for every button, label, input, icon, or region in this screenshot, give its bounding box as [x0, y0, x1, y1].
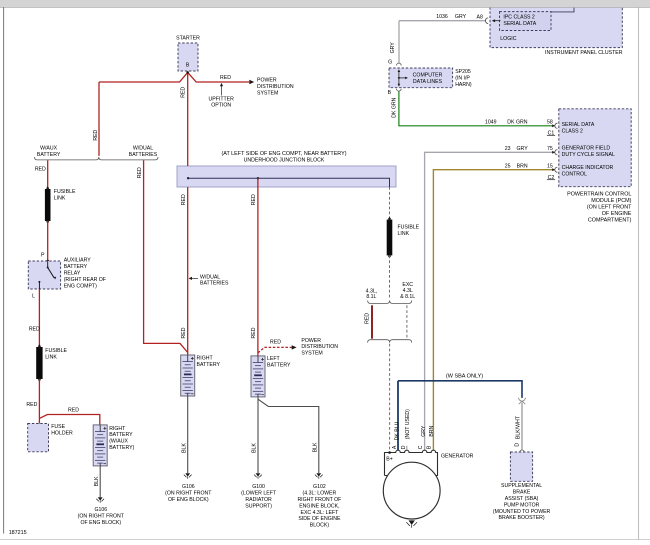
svg-text:RIGHT FRONT OF: RIGHT FRONT OF — [297, 497, 341, 503]
svg-text:BLK/WHT: BLK/WHT — [516, 415, 522, 439]
svg-text:BRAKE: BRAKE — [513, 490, 531, 496]
svg-text:OF ENG BLOCK): OF ENG BLOCK) — [168, 497, 209, 503]
svg-text:(MOUNTED TO POWER: (MOUNTED TO POWER — [493, 509, 551, 515]
svg-text:58: 58 — [547, 119, 553, 125]
svg-text:& 8.1L: & 8.1L — [400, 294, 415, 300]
svg-text:DUTY CYCLE SIGNAL: DUTY CYCLE SIGNAL — [562, 152, 615, 158]
svg-text:COMPUTER: COMPUTER — [413, 73, 443, 79]
svg-text:8.1L: 8.1L — [366, 294, 376, 300]
svg-text:RED: RED — [181, 87, 187, 98]
svg-text:15: 15 — [547, 164, 553, 170]
svg-text:COMPARTMENT): COMPARTMENT) — [588, 218, 632, 224]
svg-text:LEFT: LEFT — [267, 356, 281, 362]
svg-text:GRY: GRY — [455, 14, 467, 20]
svg-text:DK GRN: DK GRN — [507, 119, 527, 125]
svg-text:UPFITTER: UPFITTER — [209, 96, 235, 102]
svg-text:75: 75 — [547, 146, 553, 152]
svg-text:P: P — [41, 253, 45, 259]
svg-text:SUPPORT): SUPPORT) — [245, 503, 272, 509]
svg-text:4.3L: 4.3L — [403, 288, 413, 294]
svg-text:BLK: BLK — [181, 443, 187, 453]
svg-text:DATA LINES: DATA LINES — [413, 79, 443, 85]
svg-text:25: 25 — [505, 164, 511, 170]
svg-text:UNDERHOOD JUNCTION BLOCK: UNDERHOOD JUNCTION BLOCK — [244, 158, 325, 164]
svg-text:W/DUAL: W/DUAL — [200, 274, 220, 280]
svg-text:BATTERY: BATTERY — [197, 362, 221, 368]
svg-text:DISTRIBUTION: DISTRIBUTION — [257, 84, 294, 90]
svg-text:B: B — [186, 63, 190, 69]
svg-text:BRN: BRN — [429, 425, 435, 436]
svg-text:BLOCK): BLOCK) — [310, 523, 330, 529]
svg-text:(ON LEFT FRONT: (ON LEFT FRONT — [587, 205, 632, 211]
svg-text:DK BLU: DK BLU — [395, 421, 401, 440]
svg-text:BATTERY: BATTERY — [64, 264, 88, 270]
svg-text:BLK: BLK — [312, 442, 318, 452]
svg-text:OPTION: OPTION — [211, 103, 231, 109]
svg-text:A8: A8 — [477, 14, 483, 20]
svg-text:DK GRN: DK GRN — [392, 97, 398, 117]
svg-text:(NOT USED): (NOT USED) — [405, 409, 411, 439]
svg-text:CLASS 2: CLASS 2 — [562, 129, 583, 135]
svg-text:W/DUAL: W/DUAL — [133, 145, 153, 151]
svg-text:D: D — [515, 443, 521, 447]
svg-text:ENG COMPT): ENG COMPT) — [64, 283, 97, 289]
svg-text:RIGHT: RIGHT — [109, 426, 126, 432]
svg-text:BLK: BLK — [94, 476, 100, 486]
svg-text:RADIATOR: RADIATOR — [245, 497, 272, 503]
svg-text:D: D — [401, 445, 407, 449]
svg-text:G102: G102 — [313, 484, 326, 490]
svg-text:POWER: POWER — [301, 338, 321, 344]
svg-text:HOLDER: HOLDER — [51, 430, 73, 436]
svg-text:(AT LEFT SIDE OF ENG COMPT, NE: (AT LEFT SIDE OF ENG COMPT, NEAR BATTERY… — [222, 151, 347, 157]
svg-text:C2: C2 — [548, 175, 555, 181]
svg-text:SERIAL DATA: SERIAL DATA — [562, 122, 595, 128]
svg-text:BATTERY): BATTERY) — [109, 445, 134, 451]
svg-text:LINK: LINK — [45, 355, 57, 361]
svg-text:IPC CLASS 2: IPC CLASS 2 — [503, 15, 535, 21]
svg-text:FUSE: FUSE — [51, 424, 65, 430]
svg-text:BLK: BLK — [252, 443, 258, 453]
svg-text:BATTERY: BATTERY — [37, 152, 61, 158]
svg-text:LINK: LINK — [398, 231, 410, 237]
svg-text:RED: RED — [93, 129, 99, 140]
svg-text:(IN I/P: (IN I/P — [455, 75, 470, 81]
svg-text:LINK: LINK — [54, 195, 66, 201]
svg-text:RED: RED — [35, 167, 46, 173]
svg-text:OF ENG BLOCK): OF ENG BLOCK) — [80, 520, 121, 526]
svg-text:HARN): HARN) — [455, 82, 472, 88]
svg-text:L: L — [32, 294, 35, 300]
svg-text:FUSIBLE: FUSIBLE — [54, 189, 76, 195]
svg-text:MODULE (PCM): MODULE (PCM) — [591, 198, 631, 204]
svg-text:SP205: SP205 — [455, 69, 471, 75]
svg-text:(RIGHT REAR OF: (RIGHT REAR OF — [64, 277, 106, 283]
svg-text:SUPPLEMENTAL: SUPPLEMENTAL — [501, 483, 542, 489]
svg-text:GENERATOR: GENERATOR — [441, 454, 474, 460]
svg-text:PUMP MOTOR: PUMP MOTOR — [504, 502, 540, 508]
svg-text:AUXILIARY: AUXILIARY — [64, 257, 92, 263]
svg-text:RED: RED — [220, 75, 231, 81]
svg-text:GENERATOR FIELD: GENERATOR FIELD — [562, 146, 611, 152]
svg-text:CONTROL: CONTROL — [562, 171, 587, 177]
svg-text:RED: RED — [181, 194, 187, 205]
svg-text:W/AUX: W/AUX — [40, 145, 58, 151]
svg-text:BRAKE BOOSTER): BRAKE BOOSTER) — [499, 515, 545, 521]
svg-text:SYSTEM: SYSTEM — [301, 351, 322, 357]
svg-text:STARTER: STARTER — [176, 35, 200, 41]
svg-text:DISTRIBUTION: DISTRIBUTION — [301, 344, 338, 350]
svg-text:1036: 1036 — [436, 14, 448, 20]
svg-text:B: B — [388, 90, 392, 96]
svg-text:LOGIC: LOGIC — [500, 36, 516, 42]
svg-text:SYSTEM: SYSTEM — [257, 91, 278, 97]
svg-text:FUSIBLE: FUSIBLE — [398, 225, 420, 231]
svg-text:BATTERIES: BATTERIES — [129, 152, 158, 158]
svg-text:INSTRUMENT PANEL CLUSTER: INSTRUMENT PANEL CLUSTER — [545, 50, 623, 56]
svg-text:ENGINE BLOCK,: ENGINE BLOCK, — [299, 503, 339, 509]
svg-text:RED: RED — [364, 313, 370, 324]
svg-text:G106: G106 — [182, 484, 195, 490]
svg-text:G: G — [388, 60, 392, 66]
svg-text:(W/AUX: (W/AUX — [109, 439, 128, 445]
svg-text:RIGHT: RIGHT — [197, 356, 214, 362]
svg-text:(ON RIGHT FRONT: (ON RIGHT FRONT — [165, 491, 212, 497]
svg-text:RED: RED — [270, 340, 281, 346]
svg-text:(4.3L: LOWER: (4.3L: LOWER — [303, 491, 337, 497]
svg-text:SIDE OF ENGINE: SIDE OF ENGINE — [298, 516, 341, 522]
svg-text:RED: RED — [251, 194, 257, 205]
svg-text:G100: G100 — [252, 484, 265, 490]
svg-text:B+: B+ — [386, 456, 393, 462]
svg-text:(LOWER LEFT: (LOWER LEFT — [241, 491, 277, 497]
svg-text:RELAY: RELAY — [64, 270, 81, 276]
svg-text:POWER: POWER — [257, 78, 277, 84]
svg-text:RED: RED — [68, 407, 79, 413]
svg-text:(W SBA ONLY): (W SBA ONLY) — [446, 374, 483, 380]
svg-text:OF ENGINE: OF ENGINE — [602, 211, 632, 217]
svg-text:EXC: EXC — [402, 282, 413, 288]
svg-text:BATTERY: BATTERY — [109, 432, 133, 438]
svg-text:187215: 187215 — [9, 530, 27, 536]
svg-text:BATTERIES: BATTERIES — [200, 281, 229, 287]
svg-text:GRY: GRY — [517, 146, 529, 152]
svg-text:GRY: GRY — [390, 42, 396, 54]
svg-text:EXC 4.3L: LEFT: EXC 4.3L: LEFT — [301, 510, 340, 516]
svg-text:RED: RED — [181, 327, 187, 338]
svg-text:GRY: GRY — [421, 425, 427, 437]
svg-text:POWERTRAIN CONTROL: POWERTRAIN CONTROL — [567, 192, 631, 198]
svg-text:ASSIST (SBA): ASSIST (SBA) — [505, 496, 539, 502]
svg-text:C: C — [418, 445, 424, 449]
svg-text:BATTERY: BATTERY — [267, 362, 291, 368]
svg-text:G106: G106 — [94, 507, 107, 513]
svg-text:BRN: BRN — [517, 164, 528, 170]
svg-text:SERIAL DATA: SERIAL DATA — [503, 21, 536, 27]
svg-text:1049: 1049 — [485, 119, 497, 125]
svg-text:C1: C1 — [548, 131, 555, 137]
svg-text:RED: RED — [26, 402, 37, 408]
svg-text:B: B — [427, 445, 433, 449]
svg-text:FUSIBLE: FUSIBLE — [45, 348, 67, 354]
svg-text:RED: RED — [29, 326, 40, 332]
svg-text:23: 23 — [505, 146, 511, 152]
svg-text:RED: RED — [137, 167, 143, 178]
svg-text:CHARGE INDICATOR: CHARGE INDICATOR — [562, 165, 614, 171]
svg-text:(ON RIGHT FRONT: (ON RIGHT FRONT — [78, 514, 125, 520]
svg-text:RED: RED — [251, 327, 257, 338]
